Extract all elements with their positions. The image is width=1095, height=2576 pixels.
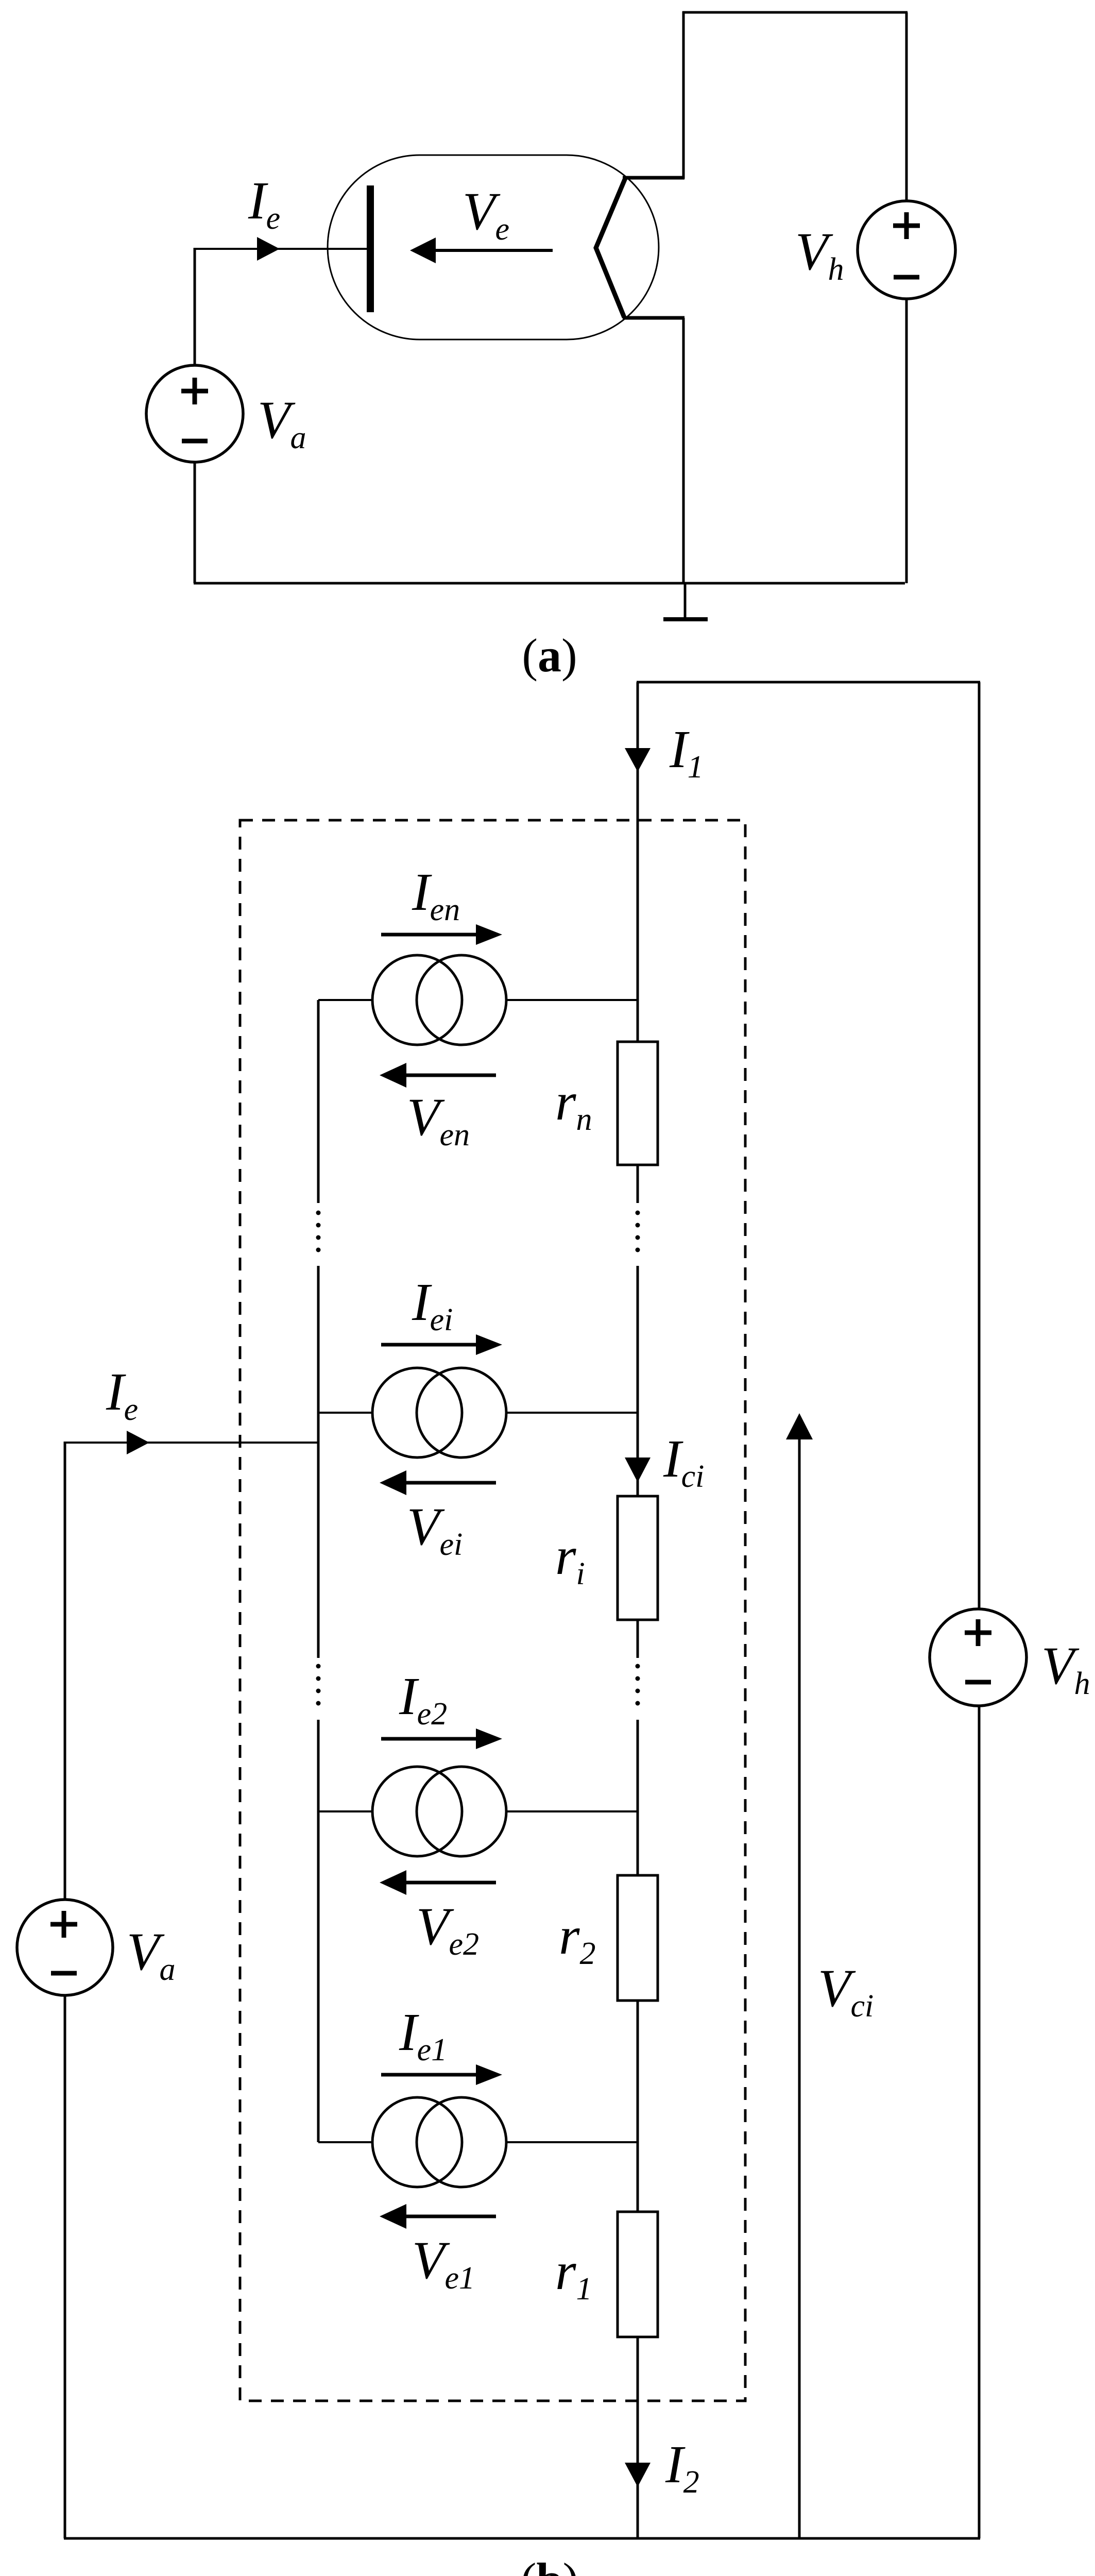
plus sign of Va (b) xyxy=(50,1911,77,1938)
arrow I1 on main branch (b) xyxy=(625,748,651,772)
plus sign of Va (a) xyxy=(181,378,208,404)
resistor r1 (b) xyxy=(618,2212,658,2337)
wire: vertical from top wire down to heater top lead (a) xyxy=(682,11,685,179)
wire: vertical from Ie wire down to Va source (a) xyxy=(194,248,196,366)
label I2 (b) xyxy=(665,2435,699,2500)
voltage source Va (a) xyxy=(146,365,243,462)
wire: bottom wire of circuit (b) xyxy=(64,2537,980,2540)
label Ven (b) xyxy=(407,1088,470,1153)
wire: left branch vertical lower segment (b) xyxy=(64,1995,66,2538)
svg-text:Ien: Ien xyxy=(412,862,460,927)
label I1 (b) xyxy=(669,720,704,785)
voltage source Vh (b) xyxy=(930,1609,1026,1706)
label Va (a) xyxy=(258,391,306,455)
dots: main branch ellipsis upper (b) xyxy=(636,1211,640,1252)
svg-text:Vh: Vh xyxy=(795,222,844,287)
svg-text:Ici: Ici xyxy=(663,1429,704,1494)
minus sign of Vh (b) xyxy=(965,1680,991,1685)
plus sign of Vh (b) xyxy=(965,1619,991,1646)
svg-text:Va: Va xyxy=(258,391,306,455)
caption (b) xyxy=(521,2553,578,2576)
wire: left branch vertical upper segment (b) xyxy=(64,1442,66,1900)
caption (a) xyxy=(522,629,577,682)
arrow Ie2 (b) xyxy=(381,1728,502,1749)
svg-text:Ie2: Ie2 xyxy=(399,1667,447,1732)
wire: Ie1 source left lead (b) xyxy=(318,2141,372,2143)
label Ve (a) xyxy=(463,182,509,247)
label r1 (b) xyxy=(555,2242,592,2307)
arrow Ien (b) xyxy=(381,924,502,945)
svg-text:Ve2: Ve2 xyxy=(416,1897,479,1962)
svg-text:Vh: Vh xyxy=(1041,1636,1090,1701)
electron tube envelope (a) xyxy=(328,155,659,340)
svg-text:Ve: Ve xyxy=(463,182,509,247)
wire: anode input wire with Ie arrow (a) xyxy=(195,237,367,261)
wire: Ie2 source left lead (b) xyxy=(318,1810,372,1812)
arrow Ie1 (b) xyxy=(381,2064,502,2085)
wire: vertical from heater bottom lead down to bottom wire (a) xyxy=(682,318,685,583)
svg-text:I1: I1 xyxy=(669,720,704,785)
label Ie2 (b) xyxy=(399,1667,447,1732)
wire: right branch vertical upper segment (b) xyxy=(978,682,981,1609)
svg-text:Ie1: Ie1 xyxy=(399,2003,447,2067)
wire: Ien source left lead (b) xyxy=(318,999,372,1001)
arrow Ve1 (b) xyxy=(380,2204,496,2229)
current source Iei left circle (b) xyxy=(372,1368,462,1458)
arrow Vci long vertical (b) xyxy=(786,1413,813,2537)
label ri (b) xyxy=(555,1527,585,1591)
label Va (b) xyxy=(127,1922,176,1987)
svg-text:Va: Va xyxy=(127,1922,176,1987)
label Vci (b) xyxy=(818,1959,874,2024)
dots: main branch ellipsis lower (b) xyxy=(636,1664,640,1706)
dots: left rail ellipsis lower (b) xyxy=(316,1664,321,1706)
arrow Ven (b) xyxy=(380,1063,496,1088)
dashed box of equivalent network (b) xyxy=(240,820,745,2401)
current source Ien left circle (b) xyxy=(372,955,462,1045)
current source Ie1 left circle (b) xyxy=(372,2097,462,2187)
arrow Ve2 (b) xyxy=(380,1870,496,1895)
svg-text:Vei: Vei xyxy=(407,1497,463,1562)
wire: vertical from Vh source down to bottom wire (a) xyxy=(905,298,908,583)
svg-text:Ie: Ie xyxy=(106,1362,138,1427)
voltage source Va (b) xyxy=(17,1900,113,1995)
resistor ri (b) xyxy=(618,1496,658,1620)
label Ie (a) xyxy=(248,171,280,236)
arrow Ve inside tube (a) xyxy=(410,238,553,263)
label Iei (b) xyxy=(412,1273,453,1337)
tube anode plate (a) xyxy=(367,185,374,312)
svg-text:r1: r1 xyxy=(555,2242,592,2307)
wire: Ie input wire (b) xyxy=(65,1431,318,1454)
minus sign of Va (a) xyxy=(182,439,208,444)
wire: right branch vertical lower segment (b) xyxy=(978,1705,981,2538)
ground symbol (a) xyxy=(663,583,708,621)
label rn (b) xyxy=(555,1072,592,1137)
wire: vertical from Va source down to bottom wire (a) xyxy=(194,462,196,583)
wire: bottom wire of circuit (a) xyxy=(194,582,905,585)
label Vei (b) xyxy=(407,1497,463,1562)
svg-text:(a): (a) xyxy=(522,629,577,682)
current source Ie1 right circle (b) xyxy=(417,2097,506,2187)
svg-text:r2: r2 xyxy=(559,1906,595,1971)
current source Ien right circle (b) xyxy=(417,955,506,1045)
label Ve2 (b) xyxy=(416,1897,479,1962)
arrow Vei (b) xyxy=(380,1470,496,1495)
wire: main branch dots to r2 resistor (b) xyxy=(637,1720,639,1875)
wire: top wire of circuit (b) xyxy=(637,681,980,684)
dots: left rail ellipsis upper (b) xyxy=(316,1211,321,1252)
wire: main branch ri bottom to dots (b) xyxy=(637,1620,639,1658)
svg-text:Ve1: Ve1 xyxy=(412,2231,475,2296)
wire: Iei source left lead (b) xyxy=(318,1412,372,1414)
wire: main branch r2 bottom to r1 resistor (b) xyxy=(637,2001,639,2212)
wire: left rail dots to Ie1 source (b) xyxy=(317,1720,320,2142)
arrow I2 on main branch (b) xyxy=(625,2463,651,2487)
resistor r2 (b) xyxy=(618,1875,658,2001)
wire: heater bottom lead (a) xyxy=(623,316,685,320)
svg-text:ri: ri xyxy=(555,1527,585,1591)
wire: main branch dots to ri resistor (b) xyxy=(637,1266,639,1496)
svg-text:I2: I2 xyxy=(665,2435,699,2500)
arrow Iei (b) xyxy=(381,1334,502,1355)
current source Iei right circle (b) xyxy=(417,1368,506,1458)
svg-text:Iei: Iei xyxy=(412,1273,453,1337)
wire: vertical from top wire down to Vh source (a) xyxy=(905,12,908,201)
label Ie (b) xyxy=(106,1362,138,1427)
svg-text:Vci: Vci xyxy=(818,1959,874,2024)
svg-text:rn: rn xyxy=(555,1072,592,1137)
wire: main branch from top wire to rn resistor (b) xyxy=(637,682,639,1043)
svg-text:(b): (b) xyxy=(521,2553,578,2576)
wire: Ie2 source right lead (b) xyxy=(506,1810,638,1812)
label r2 (b) xyxy=(559,1906,595,1971)
label Ie1 (b) xyxy=(399,2003,447,2067)
svg-text:Ven: Ven xyxy=(407,1088,470,1153)
current source Ie2 left circle (b) xyxy=(372,1767,462,1856)
label Vh (a) xyxy=(795,222,844,287)
arrow Ici on main branch (b) xyxy=(625,1458,651,1482)
minus sign of Va (b) xyxy=(51,1971,77,1976)
plus sign of Vh (a) xyxy=(893,212,920,239)
wire: top wire of circuit (a) xyxy=(682,11,908,14)
heater filament chevron (a) xyxy=(596,178,625,317)
wire: main branch rn bottom to dots (b) xyxy=(637,1165,639,1203)
resistor rn (b) xyxy=(618,1042,658,1165)
label Ve1 (b) xyxy=(412,2231,475,2296)
minus sign of Vh (a) xyxy=(894,275,919,280)
wire: left rail from Ien source to dots (b) xyxy=(317,1000,320,1203)
wire: Ien source right lead (b) xyxy=(506,999,638,1001)
label Ien (b) xyxy=(412,862,460,927)
label Ici (b) xyxy=(663,1429,704,1494)
wire: Ie1 source right lead (b) xyxy=(506,2141,638,2143)
current source Ie2 right circle (b) xyxy=(417,1767,506,1856)
wire: left rail dots to Ie1 source segment middle (b) xyxy=(317,1266,320,1658)
wire: heater top lead (a) xyxy=(623,176,685,180)
wire: main branch r1 bottom to bottom wire (b) xyxy=(637,2337,639,2538)
svg-text:Ie: Ie xyxy=(248,171,280,236)
label Vh (b) xyxy=(1041,1636,1090,1701)
voltage source Vh (a) xyxy=(858,201,955,299)
wire: Iei source right lead (b) xyxy=(506,1412,638,1414)
